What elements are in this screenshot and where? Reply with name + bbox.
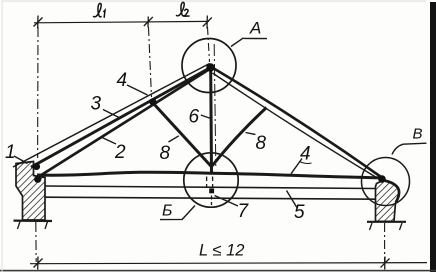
leader 4 left (127, 85, 148, 95)
tick middle (top dim) (144, 17, 153, 28)
tick right (top dim) (203, 16, 212, 29)
scan border right (430, 2, 436, 272)
hidden bolt dashes (207, 177, 213, 206)
node circle B (bottom center) (184, 153, 238, 207)
left centerline below support (35, 222, 37, 262)
apex node dot (206, 63, 214, 71)
leader 4 right (291, 159, 302, 174)
svg-text:2: 2 (114, 142, 126, 163)
svg-text:В: В (413, 126, 423, 143)
tie beam 5 bottom line (45, 197, 375, 199)
left support outline (16, 162, 45, 221)
tick right (bottom dim) (381, 257, 390, 270)
extension line left (dash-dot) (37, 27, 39, 158)
bolt square 7 (209, 188, 214, 193)
svg-text:1: 1 (5, 142, 16, 163)
svg-text:3: 3 (91, 94, 102, 115)
tick left (bottom dim) (34, 257, 43, 270)
svg-text:4: 4 (300, 144, 311, 165)
svg-text:6: 6 (189, 107, 200, 128)
leader B (160, 206, 195, 220)
right support ground line (367, 221, 406, 223)
right support hook stroke (382, 180, 400, 203)
tick left (top dim) (34, 16, 43, 29)
leader 2 (101, 137, 117, 144)
leader 8 right (246, 133, 256, 135)
leader 7 (215, 196, 239, 207)
inner chord 2 (left slope, thick) (37, 69, 211, 179)
heel node dot upper (33, 163, 40, 170)
right support outline (376, 181, 400, 222)
extension line apex (dash-dot) (208, 27, 210, 62)
leader A (231, 38, 267, 47)
label l1 (94, 3, 106, 17)
scan border top faint (2, 0, 426, 3)
svg-text:A: A (249, 19, 261, 38)
diagonal 8 right (212, 108, 267, 167)
centerline segment right of apex (214, 44, 216, 166)
ground tick left b (45, 222, 48, 230)
leader 8 left (169, 136, 179, 142)
ground tick right b (400, 223, 403, 230)
tie beam 5 top line (45, 186, 375, 189)
svg-text:8: 8 (160, 143, 171, 164)
leader 1 (14, 156, 28, 164)
svg-text:7: 7 (238, 201, 250, 222)
diagonal 8 left (153, 103, 211, 167)
svg-text:Б: Б (162, 203, 172, 220)
top chord 3 (left slope, thick) (31, 68, 211, 168)
purlin node dot (149, 98, 156, 105)
scan border left faint (1, 0, 4, 272)
right chord bottom edge (thin) (213, 73, 382, 181)
top dimension line (34, 21, 209, 22)
node circle A (182, 39, 236, 93)
right centerline below support (384, 223, 386, 263)
leader 3 (103, 110, 120, 119)
extension line middle (dash-dot) (149, 27, 152, 97)
leader 5 (287, 191, 298, 209)
leader 6 (201, 115, 211, 119)
node circle V (right) (362, 158, 410, 206)
king post 6 (209, 70, 213, 172)
svg-text:L ≤ 12: L ≤ 12 (199, 242, 244, 260)
left support ground line (14, 220, 53, 223)
leader V (392, 143, 427, 154)
ground tick left a (18, 222, 21, 230)
label l2 (177, 2, 190, 16)
right chord top edge (thick) (211, 67, 383, 179)
right heel dot (378, 175, 386, 183)
svg-text:4: 4 (117, 70, 128, 91)
bottom chord (37, 172, 383, 178)
ground tick right a (370, 223, 373, 230)
leader 4 right arc (300, 162, 312, 164)
rafter line 4 (thin, left slope) (13, 64, 210, 168)
scan border bottom (0, 270, 436, 272)
bottom dimension line (30, 263, 427, 264)
heel node dot lower (34, 176, 41, 183)
svg-text:8: 8 (256, 133, 267, 154)
